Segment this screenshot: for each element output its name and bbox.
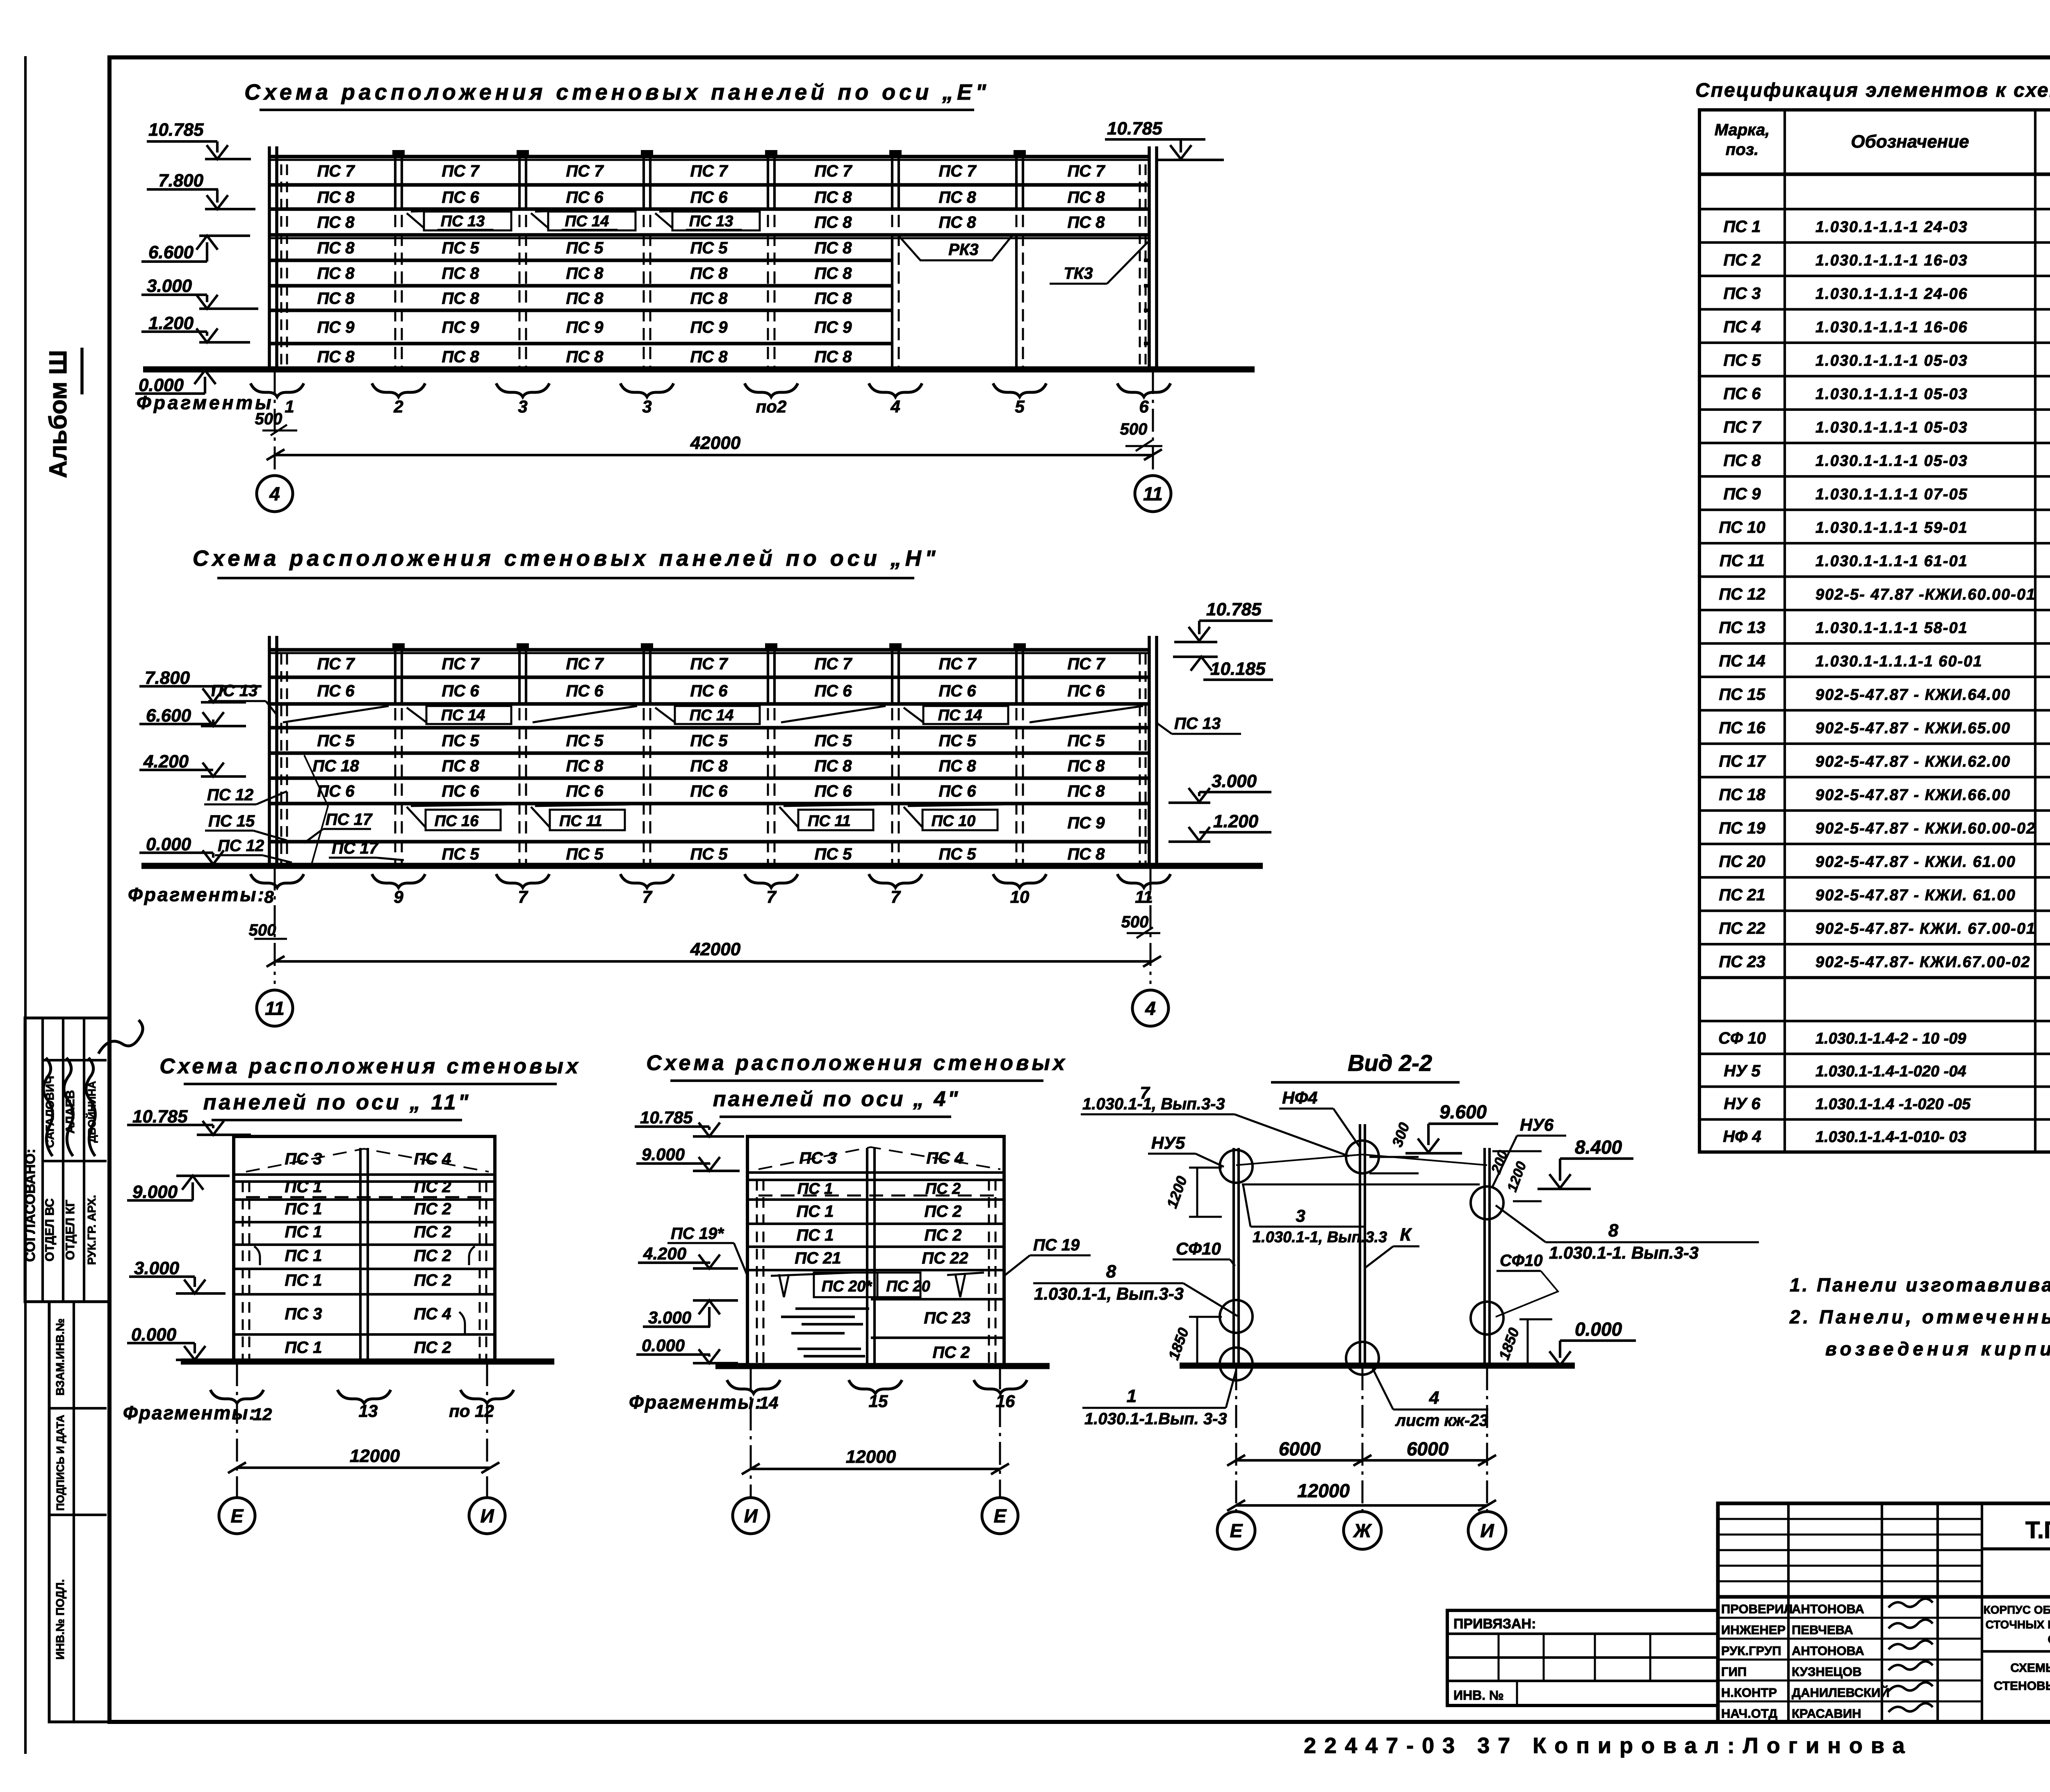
svg-text:ПС 8: ПС 8 (938, 189, 976, 207)
svg-text:902-5-47.87- КЖИ. 67.00-01: 902-5-47.87- КЖИ. 67.00-01 (1815, 920, 2036, 937)
svg-text:2: 2 (393, 397, 403, 416)
svg-text:ПС 8: ПС 8 (1067, 214, 1105, 232)
svg-text:1.200: 1.200 (1213, 811, 1259, 831)
svg-text:1.030.1-1, Вып.3.3: 1.030.1-1, Вып.3.3 (1253, 1229, 1387, 1246)
svg-text:ПС 1: ПС 1 (285, 1200, 322, 1218)
axes view 2-2 (1235, 1367, 1237, 1511)
signatures rotated (43, 1058, 52, 1156)
svg-text:ПС 19*: ПС 19* (671, 1225, 724, 1243)
ground line scheme N (141, 863, 1263, 869)
bay columns scheme N (394, 651, 396, 866)
svg-text:1. Панели изготавливать из: 1. Панели изготавливать из керамзитобето… (1790, 1274, 2050, 1296)
svg-text:10.785: 10.785 (1206, 599, 1262, 619)
notes group (1789, 1261, 2050, 1359)
title block top small rows (1718, 1518, 1982, 1520)
svg-text:ПС 4: ПС 4 (926, 1149, 963, 1167)
axis lines and circles scheme E (274, 371, 276, 476)
tank RK3 (898, 235, 1013, 260)
svg-text:ПС 19: ПС 19 (1033, 1236, 1080, 1254)
svg-text:ПС 14: ПС 14 (1719, 652, 1765, 670)
svg-text:ПС 5: ПС 5 (442, 845, 479, 863)
title block left grid verticals (1787, 1503, 1790, 1722)
svg-text:ПС 6: ПС 6 (566, 682, 604, 700)
svg-text:ПС 2: ПС 2 (414, 1339, 451, 1357)
svg-text:ПС 5: ПС 5 (1067, 732, 1105, 750)
svg-text:4.200: 4.200 (143, 751, 189, 772)
svg-text:ОТДЕЛ ВС: ОТДЕЛ ВС (43, 1198, 57, 1261)
svg-text:10: 10 (1010, 887, 1030, 906)
insert row PS20 scheme 4 (771, 1273, 853, 1276)
dim 12000 scheme 11 (237, 1466, 490, 1469)
svg-text:ПС 6: ПС 6 (442, 189, 479, 207)
svg-text:Обозначение: Обозначение (1851, 132, 1969, 152)
svg-text:ПС 2: ПС 2 (414, 1200, 451, 1218)
svg-text:3.000: 3.000 (134, 1258, 180, 1278)
svg-text:СОГЛАСОВАНО:: СОГЛАСОВАНО: (23, 1149, 38, 1262)
svg-text:ТК3: ТК3 (1064, 264, 1093, 282)
svg-text:ПС 7: ПС 7 (938, 162, 977, 180)
svg-text:22447-03 37 Копировал:Логино: 22447-03 37 Копировал:Логинова (1304, 1733, 1913, 1758)
svg-text:0.000: 0.000 (1575, 1318, 1622, 1340)
svg-text:ПС 7: ПС 7 (1067, 655, 1105, 673)
svg-text:1.030.1-1, Вып.3-3: 1.030.1-1, Вып.3-3 (1082, 1095, 1225, 1113)
svg-text:ПС 8: ПС 8 (317, 289, 355, 307)
svg-text:10.785: 10.785 (1107, 118, 1162, 139)
zigzag leader bay1 scheme N (304, 755, 328, 864)
svg-text:НАЧ.ОТД: НАЧ.ОТД (1721, 1706, 1777, 1721)
svg-text:1.030.1-1.4-2 - 10 -09: 1.030.1-1.4-2 - 10 -09 (1815, 1030, 1966, 1047)
svg-text:КРАСАВИН: КРАСАВИН (1792, 1706, 1861, 1721)
svg-text:4: 4 (1145, 998, 1156, 1019)
svg-text:ПС 8: ПС 8 (442, 289, 479, 307)
svg-text:ПС 14: ПС 14 (690, 707, 734, 724)
svg-text:ПС 6: ПС 6 (690, 782, 728, 800)
scheme 11 group (123, 1054, 581, 1534)
svg-text:9: 9 (394, 887, 403, 906)
svg-text:КОРПУС ОБЕЗВОЖИВАНИЯ ОСАДКА: КОРПУС ОБЕЗВОЖИВАНИЯ ОСАДКА (1984, 1603, 2050, 1616)
svg-text:1.200: 1.200 (148, 313, 194, 333)
svg-text:7.800: 7.800 (158, 171, 204, 191)
panel row lines (270, 155, 1150, 159)
svg-text:1.030.1-1.1-1 24-03: 1.030.1-1.1-1 24-03 (1815, 219, 1968, 236)
svg-text:Схема расположения стеновых: Схема расположения стеновых (646, 1051, 1068, 1075)
svg-text:ПС 8: ПС 8 (814, 757, 852, 775)
svg-text:6000: 6000 (1407, 1438, 1449, 1460)
svg-text:ПС 1: ПС 1 (797, 1180, 833, 1198)
svg-text:ПС 8: ПС 8 (317, 214, 355, 232)
svg-text:ПС 18: ПС 18 (1719, 786, 1765, 804)
svg-text:1.030.1-1.1-1 58-01: 1.030.1-1.1-1 58-01 (1815, 619, 1968, 637)
box scheme 4 (747, 1136, 1004, 1365)
svg-text:1.030.1-1.1-1 05-03: 1.030.1-1.1-1 05-03 (1815, 385, 1968, 403)
svg-text:ПС 15: ПС 15 (208, 812, 255, 830)
svg-text:АНТОНОВА: АНТОНОВА (1792, 1602, 1864, 1616)
svg-text:ПС 8: ПС 8 (814, 348, 852, 366)
svg-text:ПС 2: ПС 2 (924, 1226, 961, 1244)
svg-text:ПС 20: ПС 20 (886, 1278, 930, 1295)
svg-text:ПС 22: ПС 22 (1719, 919, 1765, 937)
svg-text:902-5-47.87 - КЖИ. 61.00: 902-5-47.87 - КЖИ. 61.00 (1815, 887, 2016, 904)
ground line scheme 4 (715, 1363, 1050, 1369)
svg-text:ПС 8: ПС 8 (442, 348, 479, 366)
svg-text:ПС 5: ПС 5 (442, 732, 479, 750)
svg-text:ИНВ. №: ИНВ. № (1453, 1688, 1504, 1703)
svg-text:ПС 8: ПС 8 (690, 289, 728, 307)
table header rows (1699, 173, 2050, 176)
svg-text:панелей по оси „ 4": панелей по оси „ 4" (713, 1087, 960, 1111)
svg-text:3: 3 (642, 397, 651, 416)
svg-text:ПС 4: ПС 4 (414, 1305, 451, 1323)
svg-text:14: 14 (759, 1393, 779, 1412)
view 2-2 group (1033, 1050, 1759, 1549)
svg-text:Е: Е (231, 1505, 244, 1527)
scheme E group (135, 80, 1255, 512)
svg-text:НУ 6: НУ 6 (1724, 1095, 1761, 1113)
svg-text:ПС 15: ПС 15 (1719, 685, 1765, 704)
svg-text:ПС 8: ПС 8 (442, 264, 479, 282)
svg-text:ПС 7: ПС 7 (938, 655, 977, 673)
inner dashed columns scheme 4 (756, 1180, 758, 1365)
svg-text:1.030.1-1.1-1 05-03: 1.030.1-1.1-1 05-03 (1815, 352, 1968, 369)
svg-text:ПС 5: ПС 5 (566, 845, 604, 863)
svg-text:ПС 6: ПС 6 (442, 682, 479, 700)
svg-text:Е: Е (1230, 1520, 1243, 1542)
svg-text:3: 3 (1296, 1206, 1305, 1225)
svg-text:ПС 13: ПС 13 (689, 213, 733, 230)
TP number cell (1982, 1547, 2050, 1551)
svg-text:ПС 21: ПС 21 (795, 1249, 841, 1267)
svg-text:500: 500 (1120, 420, 1148, 438)
svg-text:0.000: 0.000 (642, 1336, 685, 1355)
svg-text:ПС 2: ПС 2 (414, 1178, 451, 1196)
strut line view 2-2 (1242, 1184, 1480, 1186)
svg-text:ПС 8: ПС 8 (938, 214, 976, 232)
svg-text:ПС 5: ПС 5 (814, 732, 852, 750)
svg-text:10.785: 10.785 (132, 1107, 188, 1127)
privyazan table (1447, 1610, 1718, 1705)
svg-text:ПС 9: ПС 9 (1067, 814, 1105, 832)
svg-text:10.185: 10.185 (1210, 659, 1266, 679)
svg-text:1.030.1-1.4 -1-020 -05: 1.030.1-1.4 -1-020 -05 (1815, 1096, 1971, 1113)
svg-text:СФ10: СФ10 (1500, 1252, 1543, 1270)
svg-text:7: 7 (518, 887, 528, 906)
svg-text:ПС 6: ПС 6 (1067, 682, 1105, 700)
svg-text:4: 4 (890, 397, 900, 416)
svg-text:ПС 5: ПС 5 (566, 239, 604, 257)
svg-text:ПС 4: ПС 4 (1723, 318, 1761, 336)
svg-text:8: 8 (264, 887, 274, 906)
table verticals (1783, 110, 1786, 1152)
svg-text:1.030.1-1.1-1 59-01: 1.030.1-1.1-1 59-01 (1815, 519, 1968, 536)
svg-text:ПС 9: ПС 9 (690, 319, 728, 337)
svg-text:5: 5 (1015, 397, 1025, 416)
svg-text:ПС 2: ПС 2 (1723, 251, 1761, 269)
left margin stamp group 1 (23, 1018, 143, 1302)
svg-text:ПС 2: ПС 2 (925, 1180, 961, 1198)
svg-text:ПС 2: ПС 2 (932, 1343, 970, 1362)
svg-text:ПС 2: ПС 2 (414, 1247, 451, 1265)
svg-text:Схема расположения стеновых па: Схема расположения стеновых панелей по о… (244, 80, 990, 105)
svg-text:ПС 7: ПС 7 (690, 162, 728, 180)
svg-text:Альбом Ш: Альбом Ш (44, 350, 72, 478)
svg-text:500: 500 (249, 921, 276, 939)
svg-text:ПС 7: ПС 7 (566, 162, 604, 180)
svg-text:ПС 23: ПС 23 (1719, 953, 1765, 971)
svg-text:ПС 6: ПС 6 (317, 682, 355, 700)
svg-text:Спецификация элементов к схема: Спецификация элементов к схемам располож… (1695, 80, 2050, 101)
svg-text:панелей по оси „ 11": панелей по оси „ 11" (203, 1091, 471, 1114)
svg-text:ПС 8: ПС 8 (814, 289, 852, 307)
svg-text:РУК.ГРУП: РУК.ГРУП (1721, 1644, 1781, 1658)
svg-text:3.000: 3.000 (648, 1308, 691, 1327)
svg-text:ПС 5: ПС 5 (938, 845, 976, 863)
svg-text:1: 1 (285, 397, 294, 416)
svg-text:ПС 11: ПС 11 (559, 813, 602, 830)
svg-text:И: И (744, 1505, 758, 1527)
svg-text:ПС 12: ПС 12 (1719, 585, 1765, 603)
svg-text:ПС 7: ПС 7 (442, 655, 480, 673)
svg-text:НФ4: НФ4 (1282, 1088, 1317, 1107)
svg-text:ПС 14: ПС 14 (441, 707, 485, 724)
svg-text:ПС 6: ПС 6 (690, 682, 728, 700)
svg-text:ПС 7: ПС 7 (442, 162, 480, 180)
svg-text:ПС 8: ПС 8 (317, 348, 355, 366)
svg-text:1.030.1-1.1-1 61-01: 1.030.1-1.1-1 61-01 (1815, 553, 1968, 570)
svg-text:ПС 3: ПС 3 (285, 1150, 322, 1168)
svg-text:902-5-47.87 - КЖИ.66.00: 902-5-47.87 - КЖИ.66.00 (1815, 786, 2011, 804)
svg-text:ПС 6: ПС 6 (566, 189, 604, 207)
svg-text:СФ10: СФ10 (1176, 1239, 1221, 1258)
svg-text:ИНВ.№ ПОДЛ.: ИНВ.№ ПОДЛ. (54, 1579, 66, 1660)
svg-text:8: 8 (1106, 1261, 1116, 1282)
svg-text:ПС 1: ПС 1 (796, 1202, 834, 1220)
svg-text:ПС 23: ПС 23 (924, 1309, 970, 1327)
specification table group (1695, 80, 2050, 1152)
svg-text:7: 7 (891, 887, 901, 906)
svg-text:1.030.1-1.1-1 05-03: 1.030.1-1.1-1 05-03 (1815, 452, 1968, 469)
svg-text:ПС 5: ПС 5 (317, 732, 355, 750)
dim 12000 scheme 4 (751, 1468, 1000, 1470)
svg-text:4: 4 (1429, 1388, 1439, 1408)
svg-text:1.030.1-1.1-1 07-05: 1.030.1-1.1-1 07-05 (1815, 486, 1968, 503)
svg-text:ПС 17: ПС 17 (1719, 752, 1766, 770)
svg-text:Схема расположения стеновых: Схема расположения стеновых (159, 1054, 581, 1078)
svg-text:ПС 8: ПС 8 (1067, 189, 1105, 207)
svg-text:ПС 5: ПС 5 (566, 732, 604, 750)
svg-text:3: 3 (518, 397, 527, 416)
svg-text:13: 13 (359, 1401, 378, 1421)
svg-text:ПС 3: ПС 3 (1723, 285, 1761, 303)
svg-text:ПС 1: ПС 1 (285, 1339, 322, 1357)
svg-text:1.030.1-1.1-1 16-03: 1.030.1-1.1-1 16-03 (1815, 252, 1968, 269)
svg-text:ПС 6: ПС 6 (814, 782, 852, 800)
left trim line (24, 56, 27, 1754)
svg-text:КУЗНЕЦОВ: КУЗНЕЦОВ (1792, 1664, 1862, 1679)
svg-text:ПС 6: ПС 6 (938, 682, 976, 700)
svg-text:ПС 8: ПС 8 (938, 757, 976, 775)
svg-text:Схема расположения стеновых па: Схема расположения стеновых панелей по о… (193, 546, 939, 571)
svg-text:ПС 22: ПС 22 (922, 1249, 968, 1267)
svg-text:12000: 12000 (350, 1446, 400, 1466)
left margin stamp group 2 (49, 1302, 109, 1722)
svg-text:Ж: Ж (1353, 1520, 1372, 1542)
svg-text:РУК.ГР. АРХ.: РУК.ГР. АРХ. (85, 1195, 98, 1265)
svg-text:ПС 7: ПС 7 (1067, 162, 1105, 180)
svg-text:8.400: 8.400 (1575, 1136, 1622, 1158)
svg-text:4.200: 4.200 (643, 1244, 686, 1263)
svg-text:ПС 6: ПС 6 (1723, 385, 1761, 403)
svg-text:ПС 13: ПС 13 (441, 213, 485, 230)
svg-text:ПС 8: ПС 8 (690, 757, 728, 775)
svg-text:ПС 3: ПС 3 (285, 1305, 322, 1323)
svg-text:ПС 6: ПС 6 (442, 782, 479, 800)
svg-text:НФ 4: НФ 4 (1723, 1128, 1761, 1146)
svg-text:ПС 13: ПС 13 (1719, 619, 1765, 637)
svg-text:НУ5: НУ5 (1151, 1133, 1185, 1152)
svg-text:ПС 12: ПС 12 (218, 837, 264, 855)
svg-text:ПС 13: ПС 13 (1174, 715, 1221, 733)
svg-text:16: 16 (996, 1391, 1015, 1411)
posts (1232, 1148, 1235, 1366)
svg-text:ПС 8: ПС 8 (566, 264, 604, 282)
ground line scheme E (143, 367, 1255, 373)
svg-text:ПС 8: ПС 8 (566, 757, 604, 775)
svg-text:ПРИВЯЗАН:: ПРИВЯЗАН: (1453, 1616, 1536, 1632)
svg-text:902-5- 47.87 -КЖИ.60.00-01: 902-5- 47.87 -КЖИ.60.00-01 (1815, 586, 2036, 603)
svg-text:ПС 2: ПС 2 (414, 1223, 451, 1241)
svg-text:ПС 5: ПС 5 (1723, 351, 1761, 369)
svg-text:2. Панели, отмеченные *, ус: 2. Панели, отмеченные *, устанавливать п… (1789, 1306, 2050, 1327)
svg-text:902-5-47.87 - КЖИ.60.00-02: 902-5-47.87 - КЖИ.60.00-02 (1815, 820, 2036, 837)
svg-text:11: 11 (1143, 483, 1163, 505)
svg-text:Фрагменты:: Фрагменты: (128, 884, 266, 905)
signatures squiggles (1888, 1598, 1933, 1608)
svg-text:9.000: 9.000 (132, 1182, 178, 1202)
svg-text:ПС 6: ПС 6 (814, 682, 852, 700)
svg-text:ПС 7: ПС 7 (317, 655, 355, 673)
svg-text:ПС 8: ПС 8 (1723, 451, 1761, 469)
svg-text:СТЕНОВЫХ ПАНЕЛЕЙ. В ОСЯХ: СТЕНОВЫХ ПАНЕЛЕЙ. В ОСЯХ (1994, 1679, 2050, 1693)
svg-text:0.000: 0.000 (131, 1325, 177, 1345)
svg-text:1.030.1-1.4-1-010- 03: 1.030.1-1.4-1-010- 03 (1815, 1129, 1966, 1146)
svg-text:ПС 9: ПС 9 (1723, 485, 1761, 503)
ground view 2-2 (1180, 1363, 1575, 1369)
svg-text:Вид 2-2: Вид 2-2 (1348, 1050, 1432, 1076)
svg-text:Фрагменты: Фрагменты (137, 392, 274, 413)
svg-text:И: И (1480, 1520, 1494, 1542)
svg-text:42000: 42000 (690, 939, 741, 959)
title block border (1718, 1503, 2050, 1722)
svg-text:ПС 5: ПС 5 (938, 732, 976, 750)
svg-text:ПС 7: ПС 7 (690, 655, 728, 673)
svg-text:ПС 5: ПС 5 (814, 845, 852, 863)
gable dashed scheme 4 (758, 1147, 1000, 1169)
svg-text:по2: по2 (756, 397, 787, 416)
panel row lines scheme N (270, 648, 1150, 652)
dim 42000 scheme N (276, 960, 1152, 963)
ground scheme 11 (181, 1359, 554, 1365)
svg-text:НУ 5: НУ 5 (1724, 1062, 1761, 1080)
svg-text:ПС 12: ПС 12 (207, 786, 253, 804)
svg-text:3.000: 3.000 (1212, 771, 1257, 791)
bay columns (394, 158, 396, 369)
svg-text:ПС 11: ПС 11 (1720, 552, 1765, 570)
svg-text:ПС 14: ПС 14 (565, 213, 609, 230)
svg-text:10.785: 10.785 (640, 1108, 693, 1127)
svg-text:Фрагменты:: Фрагменты: (629, 1391, 763, 1413)
svg-text:И: И (480, 1505, 494, 1527)
svg-text:ПС 8: ПС 8 (1067, 782, 1105, 800)
svg-text:ПС 1: ПС 1 (285, 1271, 322, 1289)
svg-text:ПС 6: ПС 6 (690, 189, 728, 207)
svg-text:500: 500 (1121, 913, 1149, 931)
svg-text:ПС 8: ПС 8 (566, 289, 604, 307)
svg-text:ПС 10: ПС 10 (932, 813, 976, 830)
insert panels PS14 row3 scheme N (426, 706, 511, 724)
svg-text:РК3: РК3 (948, 241, 979, 259)
svg-text:Н.КОНТР: Н.КОНТР (1721, 1685, 1777, 1700)
svg-text:ПРОВЕРИЛ: ПРОВЕРИЛ (1721, 1602, 1793, 1616)
svg-text:ПС 9: ПС 9 (814, 319, 852, 337)
title block group (1718, 1503, 2050, 1722)
svg-text:1: 1 (1127, 1386, 1137, 1406)
svg-text:ОГШ 1001 К-01: ОГШ 1001 К-01 (2048, 1633, 2050, 1646)
svg-text:9.000: 9.000 (642, 1145, 685, 1164)
svg-text:ПС 8: ПС 8 (814, 239, 852, 257)
svg-text:поз.: поз. (1726, 141, 1758, 159)
svg-text:ПС 18: ПС 18 (312, 757, 359, 775)
svg-text:Марка,: Марка, (1715, 121, 1770, 139)
insert panels row7 scheme N (426, 810, 501, 830)
svg-text:ГИП: ГИП (1721, 1664, 1747, 1679)
svg-text:9.600: 9.600 (1440, 1101, 1487, 1123)
svg-text:лист кж-23: лист кж-23 (1395, 1412, 1488, 1430)
svg-text:12000: 12000 (846, 1447, 896, 1467)
svg-text:7: 7 (766, 887, 777, 906)
svg-text:ПС 16: ПС 16 (1719, 719, 1765, 737)
end columns scheme N (268, 636, 271, 866)
svg-text:ИНЖЕНЕР: ИНЖЕНЕР (1721, 1623, 1786, 1637)
svg-text:ПС 8: ПС 8 (317, 264, 355, 282)
svg-text:ПС 21: ПС 21 (1719, 886, 1765, 904)
svg-text:ПС 8: ПС 8 (814, 214, 852, 232)
joint circles (1220, 1150, 1253, 1183)
svg-text:902-5-47.87- КЖИ.67.00-02: 902-5-47.87- КЖИ.67.00-02 (1815, 954, 2031, 971)
svg-text:ПС 1: ПС 1 (1723, 218, 1761, 236)
svg-text:ПС 5: ПС 5 (690, 239, 728, 257)
box scheme 11 (234, 1136, 495, 1362)
middle column scheme 4 (866, 1148, 868, 1365)
svg-text:НУ6: НУ6 (1520, 1115, 1554, 1134)
svg-text:ПС 8: ПС 8 (814, 189, 852, 207)
svg-text:8: 8 (1608, 1220, 1619, 1241)
corner hooks scheme 11 (254, 1246, 260, 1265)
svg-text:ПС 6: ПС 6 (938, 782, 976, 800)
svg-text:ПС 8: ПС 8 (317, 189, 355, 207)
svg-text:ПС 5: ПС 5 (442, 239, 479, 257)
svg-text:ПС 8: ПС 8 (1067, 845, 1105, 863)
svg-text:ПС 2: ПС 2 (414, 1271, 451, 1289)
table data rows (1699, 208, 2050, 210)
svg-text:7.800: 7.800 (145, 668, 190, 688)
svg-text:1.030.1-1.1.1-1 60-01: 1.030.1-1.1.1-1 60-01 (1815, 653, 1983, 670)
svg-text:42000: 42000 (690, 433, 741, 453)
svg-text:ПС 8: ПС 8 (566, 348, 604, 366)
brick hatch scheme 4 (795, 1307, 869, 1310)
scheme 4 group (629, 1051, 1091, 1534)
end columns (268, 146, 271, 369)
svg-text:СФ 10: СФ 10 (1718, 1029, 1766, 1047)
